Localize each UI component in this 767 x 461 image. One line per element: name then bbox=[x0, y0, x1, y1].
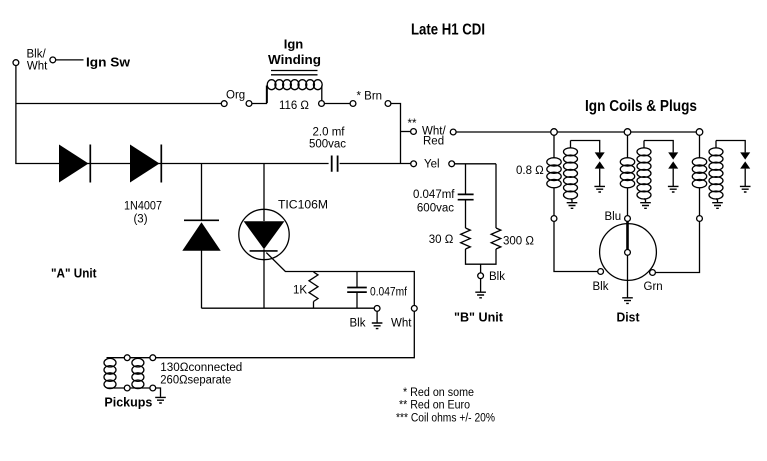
terminal Yel right bbox=[449, 161, 455, 167]
node rotor center bbox=[625, 250, 631, 256]
svg-text:(3): (3) bbox=[133, 214, 147, 226]
wire B unit left branch bbox=[465, 164, 467, 228]
spark plug 1 bbox=[595, 152, 605, 159]
ground spark plug 2 bbox=[668, 186, 679, 192]
resistor 30 ohm bbox=[461, 228, 471, 249]
wire Wht/Red tick bbox=[401, 131, 411, 133]
svg-text:Ign Coils & Plugs: Ign Coils & Plugs bbox=[585, 98, 697, 115]
terminal winding out bbox=[319, 101, 325, 107]
wire SCR cathode bbox=[263, 249, 265, 308]
capacitor 0.047mf gate bbox=[356, 272, 358, 309]
svg-text:* Red on some: * Red on some bbox=[403, 387, 474, 399]
inductor primary 1 bbox=[553, 135, 555, 215]
terminal Ign Sw bbox=[50, 57, 56, 63]
terminal Org right bbox=[246, 101, 252, 107]
wire dist stem bbox=[627, 255, 629, 297]
wire D3 branch bbox=[201, 164, 203, 309]
svg-text:"A" Unit: "A" Unit bbox=[51, 266, 97, 281]
capacitor 2.0mf 500vac bbox=[332, 156, 338, 172]
svg-text:Late H1 CDI: Late H1 CDI bbox=[411, 22, 485, 39]
svg-text:Dist: Dist bbox=[617, 309, 641, 324]
ground secondary 3 bbox=[712, 203, 723, 209]
svg-text:Winding: Winding bbox=[268, 52, 321, 67]
ground B unit bbox=[480, 279, 482, 292]
svg-text:Blk: Blk bbox=[489, 271, 505, 283]
svg-text:Blu: Blu bbox=[605, 211, 622, 223]
svg-text:**: ** bbox=[408, 118, 417, 130]
svg-text:Blk: Blk bbox=[350, 317, 366, 329]
diode D1 1N4007 bbox=[59, 145, 89, 183]
wire plug link 2 bbox=[644, 141, 673, 153]
svg-text:0.047mf: 0.047mf bbox=[413, 189, 455, 201]
svg-text:Red: Red bbox=[423, 136, 444, 148]
ground secondary 1 bbox=[567, 203, 578, 209]
wire A unit bottom rail bbox=[202, 307, 375, 309]
svg-text:Blk/: Blk/ bbox=[27, 49, 47, 61]
terminal Brn right bbox=[385, 101, 391, 107]
svg-text:Grn: Grn bbox=[644, 281, 663, 293]
svg-text:TIC106M: TIC106M bbox=[278, 200, 328, 212]
wire main rail bbox=[15, 163, 410, 165]
terminal Wht A unit bbox=[411, 306, 417, 312]
ground spark plug 3 bbox=[740, 186, 751, 192]
inductor primary 3 bbox=[699, 135, 701, 215]
svg-text:500vac: 500vac bbox=[309, 139, 346, 151]
connector pickups bottom bbox=[124, 385, 130, 391]
wire Wht to pickups bbox=[156, 311, 415, 357]
ground secondary 2 bbox=[640, 203, 651, 209]
transformer core Ign Winding bbox=[271, 71, 318, 75]
resistor 1K bbox=[309, 272, 318, 302]
wire plug link 3 bbox=[716, 141, 745, 153]
svg-text:Ign: Ign bbox=[284, 36, 304, 51]
terminal Blk/Wht bbox=[13, 60, 19, 66]
terminal Blu bbox=[625, 216, 631, 222]
spark plug 3 bbox=[740, 152, 750, 159]
terminal Org left bbox=[221, 101, 227, 107]
wire pickups top bbox=[107, 357, 150, 359]
svg-text:0.047mf: 0.047mf bbox=[370, 286, 408, 298]
wire Brn down to rail bbox=[391, 104, 401, 164]
wire SCR gate bbox=[266, 253, 414, 306]
diode D3 1N4007 bbox=[184, 219, 219, 221]
svg-text:30 Ω: 30 Ω bbox=[429, 234, 454, 246]
svg-text:600vac: 600vac bbox=[417, 202, 454, 214]
node ign coil 1 top bbox=[551, 129, 558, 136]
svg-text:Yel: Yel bbox=[424, 159, 440, 171]
svg-text:"B" Unit: "B" Unit bbox=[454, 309, 504, 324]
wire winding to Brn bbox=[324, 103, 350, 105]
node primary 1 out bbox=[551, 216, 557, 222]
svg-text:0.8 Ω: 0.8 Ω bbox=[516, 165, 544, 177]
wire primary 3 to dist Grn bbox=[655, 221, 699, 272]
terminal Wht/Red right bbox=[450, 129, 456, 135]
terminal Yel left bbox=[411, 161, 417, 167]
ground A unit bbox=[376, 311, 378, 322]
wire Yel to B unit bbox=[455, 163, 496, 165]
rotor bbox=[626, 222, 629, 250]
terminal Blk A unit bbox=[374, 306, 380, 312]
inductor secondary 3 bbox=[716, 141, 718, 203]
svg-text:Blk: Blk bbox=[593, 281, 609, 293]
ground Dist bbox=[622, 298, 633, 304]
svg-text:*** Coil ohms +/- 20%: *** Coil ohms +/- 20% bbox=[396, 412, 495, 424]
wire Ign Sw stub bbox=[56, 59, 84, 61]
resistor 300 ohm bbox=[491, 228, 501, 249]
terminal Brn left bbox=[350, 101, 356, 107]
connector pickups top bbox=[124, 355, 130, 361]
wire SCR anode bbox=[263, 164, 265, 222]
wire plug link 1 bbox=[571, 141, 600, 153]
ground pickups bbox=[155, 397, 166, 403]
terminal Blk dist bbox=[598, 269, 604, 275]
node ign coil 3 top bbox=[696, 129, 703, 136]
svg-text:300 Ω: 300 Ω bbox=[503, 235, 534, 247]
pickup coil 2 bbox=[132, 358, 144, 367]
wire B unit bottom bbox=[466, 249, 497, 273]
wire pickups bottom bbox=[107, 388, 161, 397]
SCR TIC106M bbox=[239, 209, 289, 259]
distributor body bbox=[600, 224, 657, 281]
wire Org to winding bbox=[252, 86, 267, 104]
wire left vertical bbox=[15, 66, 17, 164]
inductor secondary 1 bbox=[571, 141, 573, 203]
inductor Ign Winding bbox=[267, 80, 276, 90]
wire upper rail bbox=[16, 103, 221, 105]
terminal Wht/Red left bbox=[411, 129, 417, 135]
capacitor 0.047mf 600vac bbox=[458, 194, 474, 199]
svg-text:* Brn: * Brn bbox=[357, 91, 383, 103]
svg-text:Ign Sw: Ign Sw bbox=[86, 54, 131, 69]
wire ign coil rail bbox=[456, 131, 699, 133]
wire primary 1 to dist Blk bbox=[554, 221, 598, 271]
svg-text:1K: 1K bbox=[293, 285, 307, 297]
svg-text:2.0 mf: 2.0 mf bbox=[313, 127, 346, 139]
svg-text:Pickups: Pickups bbox=[104, 395, 152, 410]
spark plug 2 bbox=[668, 152, 678, 159]
ground spark plug 1 bbox=[594, 186, 605, 192]
svg-text:** Red on Euro: ** Red on Euro bbox=[399, 400, 470, 412]
wire B unit right branch bbox=[495, 164, 497, 228]
terminal Grn dist bbox=[650, 270, 656, 276]
svg-text:Wht: Wht bbox=[391, 317, 412, 329]
svg-text:Wht: Wht bbox=[27, 60, 48, 72]
inductor secondary 2 bbox=[644, 141, 646, 203]
pickup coil 1 bbox=[104, 358, 116, 367]
node ign coil 2 top bbox=[624, 129, 631, 136]
svg-text:116 Ω: 116 Ω bbox=[279, 100, 309, 112]
terminal Blk B unit bbox=[478, 273, 484, 279]
svg-text:Org: Org bbox=[226, 90, 245, 102]
svg-text:260Ωseparate: 260Ωseparate bbox=[160, 374, 231, 386]
svg-text:130Ωconnected: 130Ωconnected bbox=[160, 362, 242, 374]
node primary 3 out bbox=[697, 216, 703, 222]
inductor primary 2 bbox=[627, 135, 629, 215]
diode D2 1N4007 bbox=[130, 145, 160, 183]
svg-text:1N4007: 1N4007 bbox=[124, 201, 162, 213]
